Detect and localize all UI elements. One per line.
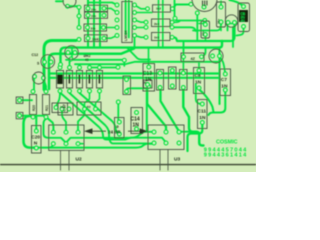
wire Q6 vertical bbox=[219, 49, 221, 104]
IC U1 right pads bbox=[132, 3, 137, 8]
C11 pads bbox=[200, 102, 205, 107]
U3 pads bbox=[152, 130, 157, 135]
wire via column x78.5 bbox=[78, 7, 80, 27]
wire IC pin to busA bbox=[134, 37, 136, 48]
op-amp U3 tab bbox=[160, 150, 168, 171]
wire pad3 stub bbox=[78, 143, 84, 145]
wire stubs to resistor tops bbox=[60, 66, 62, 67]
op-amp U2 body bbox=[49, 125, 84, 150]
resistor R21 bbox=[43, 95, 50, 115]
wire y67.5 link bbox=[90, 67, 119, 69]
resistor Rg bbox=[169, 67, 177, 89]
wire Dblk1 to C17 bbox=[57, 93, 61, 106]
resistor R20 bbox=[30, 95, 37, 115]
IC U1 left pads bbox=[115, 3, 120, 8]
svg-text:10k: 10k bbox=[91, 14, 96, 18]
wire rectA to circle bbox=[173, 5, 193, 9]
diode C7 bbox=[220, 69, 231, 96]
capacitor cap2 bbox=[201, 21, 210, 38]
label ticks in big circle bbox=[202, 1, 207, 7]
wire vertical x88 bbox=[87, 0, 89, 48]
wire C20 bottom bus bbox=[38, 144, 152, 148]
wire Q4 link bbox=[68, 5, 79, 7]
svg-text:COSMIC: COSMIC bbox=[216, 140, 238, 146]
resistor Rc bbox=[87, 71, 93, 89]
wire IC right fan 3 bbox=[135, 36, 147, 38]
wire pad124 stub bbox=[123, 62, 125, 66]
wire verticals through rectA bbox=[158, 0, 160, 48]
relay big circle bbox=[192, 0, 217, 12]
connector SQ1 bbox=[16, 97, 23, 103]
diode C20 bbox=[32, 126, 42, 154]
wire L-outer bbox=[44, 41, 76, 90]
capacitor C17 bbox=[52, 103, 68, 113]
svg-text:1k5: 1k5 bbox=[154, 35, 159, 39]
wire C7 to C11 bbox=[209, 91, 226, 115]
wire bus A y48 bbox=[61, 41, 223, 65]
rect stack pads bbox=[145, 6, 150, 11]
wire IC internal verticals bbox=[125, 0, 127, 34]
wire C20 top link bbox=[35, 117, 37, 129]
left column pads bbox=[17, 98, 22, 103]
dark labels bbox=[31, 7, 228, 163]
pads bbox=[17, 2, 246, 151]
arrow left bbox=[86, 130, 106, 132]
U2 pads bbox=[51, 130, 56, 135]
board background bbox=[0, 0, 256, 172]
wire vertical x94 bbox=[93, 0, 95, 48]
wire C11 top feed bbox=[196, 84, 200, 104]
svg-text:24 dB: 24 dB bbox=[108, 130, 121, 135]
svg-text:1N: 1N bbox=[199, 115, 206, 121]
svg-text:43: 43 bbox=[85, 58, 89, 62]
capacitor Pz bbox=[181, 53, 204, 62]
diode C8 bbox=[194, 68, 205, 94]
K vias bbox=[145, 82, 150, 87]
wire vertical x100 bbox=[99, 0, 101, 48]
svg-text:2k4: 2k4 bbox=[154, 22, 159, 26]
wire k3 diagonal + bracket bbox=[183, 89, 203, 146]
C20 pads bbox=[34, 129, 39, 134]
wire Q3 left down bbox=[33, 78, 35, 90]
wire IC right fan 1 bbox=[135, 5, 148, 9]
C14 and Cx pads bbox=[134, 110, 139, 115]
watermark text bbox=[204, 140, 247, 159]
wire U3 interior mid bbox=[149, 138, 167, 143]
wire U3 right exit bbox=[180, 131, 193, 133]
wire k2 diagonal bbox=[161, 89, 179, 131]
arrow right bbox=[128, 130, 146, 132]
wire IC right fan 4 bbox=[135, 12, 153, 14]
svg-text:4N: 4N bbox=[241, 19, 246, 23]
svg-text:ØZ: ØZ bbox=[87, 105, 91, 109]
resistor label strips bbox=[69, 75, 101, 84]
wire vert x197 bbox=[196, 13, 198, 41]
connector SQ2 bbox=[16, 112, 23, 118]
transistor Q2 circle bbox=[41, 55, 55, 69]
wire k1 diagonal bbox=[147, 89, 166, 132]
svg-text:LM324: LM324 bbox=[124, 30, 128, 41]
border line bottom bbox=[0, 164, 256, 166]
svg-text:104: 104 bbox=[60, 105, 65, 109]
wire Q5 down bbox=[232, 27, 234, 47]
wire U2 diag pads bbox=[46, 117, 53, 131]
wire IC left link 3 bbox=[104, 36, 117, 39]
wire branch diag bbox=[127, 48, 150, 60]
wire bus F y41 bbox=[173, 24, 235, 42]
wire bus pair y77.8 bbox=[50, 77, 218, 79]
wire cap2 bottom stub bbox=[205, 34, 207, 41]
resistor Rd bbox=[97, 71, 103, 89]
op-amp U2 tab bbox=[61, 150, 70, 170]
resistor row pads bbox=[58, 65, 63, 70]
svg-text:C20: C20 bbox=[31, 134, 40, 140]
wire sq1 link bbox=[22, 99, 32, 101]
svg-text:C8: C8 bbox=[195, 73, 201, 79]
CJ1 CJ2 pads bbox=[60, 107, 65, 112]
svg-text:1N: 1N bbox=[221, 84, 228, 90]
wire Q1 third leg bbox=[70, 48, 73, 63]
capacitor CJ2 bbox=[77, 102, 101, 115]
wire cap1 top stub bbox=[220, 1, 222, 7]
diode C11 bbox=[198, 100, 208, 129]
wire C8 top stub bbox=[198, 63, 200, 69]
resistor P3 bbox=[84, 24, 107, 31]
diode C13 bbox=[143, 64, 155, 92]
mid pads bbox=[122, 58, 127, 63]
wire Pz left pad up bbox=[183, 41, 185, 55]
wire U3 left entries bbox=[149, 143, 154, 145]
resistor Rb bbox=[77, 71, 83, 89]
wire bus D y63.2 bbox=[75, 62, 218, 64]
diode Dblk1 body bbox=[57, 75, 62, 85]
wire pin1 stub bbox=[50, 145, 54, 148]
top right pads bbox=[202, 5, 207, 10]
diode P4 bbox=[85, 35, 108, 42]
capacitor CJ1 bbox=[58, 103, 73, 115]
wire Q5 right stub bbox=[228, 23, 234, 25]
svg-text:C11: C11 bbox=[198, 109, 207, 115]
svg-text:9944361414: 9944361414 bbox=[204, 153, 247, 159]
wire IC right fan 2 bbox=[135, 20, 147, 22]
transistor Q1 circle bbox=[65, 46, 79, 60]
svg-text:R21: R21 bbox=[45, 105, 49, 111]
wire y88.3 feed bbox=[127, 88, 147, 90]
wire C20 elbow bbox=[24, 116, 35, 148]
transistor Q3 circle bbox=[33, 72, 45, 84]
svg-text:1k2: 1k2 bbox=[156, 7, 161, 11]
svg-text:1N41: 1N41 bbox=[92, 38, 100, 42]
wire top horizontal y2.5 bbox=[88, 3, 117, 5]
wire k0 elbow bbox=[146, 89, 148, 131]
diode Dblack body bbox=[239, 10, 248, 22]
wire sq2 link bbox=[22, 115, 44, 117]
wire rect2 stub b bbox=[96, 92, 100, 108]
wire Pz left down bbox=[182, 59, 184, 72]
wire Cx feed bbox=[117, 101, 119, 120]
diode Dblack outline bbox=[238, 3, 250, 32]
resistor Rf bbox=[157, 70, 164, 91]
svg-text:U3: U3 bbox=[174, 157, 180, 163]
wire IC left link 2 bbox=[104, 27, 117, 29]
wire cap1 bottom stub bbox=[220, 22, 222, 31]
transistor Q6 circle bbox=[209, 49, 223, 63]
resistor RA bbox=[153, 5, 171, 12]
svg-text:4Z: 4Z bbox=[191, 57, 196, 61]
green text inside black diode bbox=[241, 12, 246, 23]
resistor Dblk1 bbox=[57, 71, 64, 89]
components (silkscreen) bbox=[16, 0, 249, 171]
Pz pads bbox=[181, 54, 186, 59]
wire C13 top stub bbox=[148, 48, 150, 65]
wire rectB right up bbox=[172, 21, 180, 22]
resistor P1 bbox=[85, 5, 108, 11]
transistor Q5 circle bbox=[225, 15, 237, 27]
wire cap2 top left stub bbox=[199, 23, 204, 25]
wire bus C y59.8 bbox=[66, 59, 122, 61]
wire Q6 to C7 bbox=[220, 57, 226, 72]
svg-text:22k: 22k bbox=[91, 27, 96, 31]
svg-text:C12: C12 bbox=[32, 53, 39, 57]
wire Pz right pad stub bbox=[203, 48, 206, 56]
cap row pads bbox=[146, 65, 151, 70]
resistor Ra bbox=[67, 71, 73, 89]
wire IC fan 2b bbox=[135, 27, 147, 29]
diode Cx bbox=[115, 118, 125, 139]
wire y25 bbox=[173, 27, 196, 31]
wire top stub bbox=[56, 0, 63, 2]
svg-text:N: N bbox=[34, 141, 38, 147]
svg-text:Ø: Ø bbox=[116, 125, 119, 129]
diode C14 bbox=[131, 108, 143, 134]
op-amp U1 body bbox=[122, 2, 132, 43]
via column left of P1-P4 bbox=[77, 5, 82, 10]
svg-text:1N: 1N bbox=[195, 80, 202, 86]
transistor Q4 pads bbox=[65, 4, 70, 9]
wire Q3 right down bbox=[44, 79, 47, 90]
wire IC left link 1 bbox=[104, 8, 117, 12]
resistor P2 bbox=[85, 12, 108, 18]
wire diag d3 bbox=[80, 92, 120, 134]
transistor pads Q1 Q2 Q3 Q6 bbox=[66, 50, 71, 55]
wire L-inner bbox=[49, 49, 134, 90]
wire diag d2 bbox=[70, 92, 149, 144]
annotation arrows 24dB bbox=[86, 129, 147, 133]
wire vert x174.5 + y20 bbox=[175, 0, 205, 23]
wire diag d1 bbox=[61, 92, 150, 140]
resistor RB bbox=[152, 19, 171, 27]
svg-text:C7: C7 bbox=[221, 77, 227, 83]
P1..P4 pads bbox=[86, 6, 91, 11]
svg-text:10u: 10u bbox=[201, 31, 205, 36]
wire bus G y30.5 bbox=[193, 24, 221, 31]
wire rect2 stub a bbox=[85, 92, 90, 108]
svg-text:16v: 16v bbox=[217, 19, 221, 24]
capacitor cap1 bbox=[217, 2, 226, 27]
connector SQ3 bbox=[144, 80, 153, 88]
svg-text:10k: 10k bbox=[91, 7, 96, 11]
resistor RC bbox=[152, 33, 171, 41]
wire C11 bottom down-left bbox=[188, 124, 203, 151]
wire U2 zigzag bus bbox=[44, 119, 153, 143]
transistor Q4 circle bbox=[63, 0, 76, 8]
op-amp U3 body bbox=[148, 125, 184, 150]
svg-text:U2: U2 bbox=[76, 157, 82, 163]
resistor Rh bbox=[180, 70, 188, 91]
wire C8 S-curve bbox=[200, 90, 214, 112]
svg-text:R20: R20 bbox=[32, 105, 36, 111]
svg-text:1N: 1N bbox=[133, 123, 140, 129]
resistor Re bbox=[123, 76, 131, 95]
wire bus pair y73.5 bbox=[50, 72, 218, 74]
